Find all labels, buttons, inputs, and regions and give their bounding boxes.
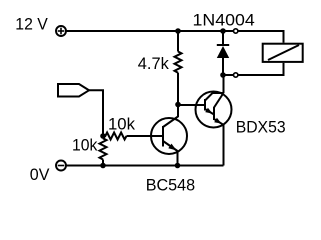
wire BDX53 collector stub — [223, 75, 225, 93]
label 10k lower — [72, 136, 98, 155]
node junction diode bottom — [220, 72, 226, 78]
node junction BC548 emitter — [175, 163, 181, 169]
label 10k upper — [108, 115, 135, 134]
resistor R1 4.7k — [175, 31, 182, 105]
wire BDX53 emitter — [223, 125, 225, 166]
svg-text:12 V: 12 V — [15, 15, 48, 34]
svg-text:BDX53: BDX53 — [236, 118, 286, 137]
svg-text:0V: 0V — [30, 165, 50, 184]
svg-text:4.7k: 4.7k — [138, 54, 169, 73]
input tag — [58, 84, 89, 97]
relay coil K1 — [263, 44, 303, 62]
wire 12V rail — [66, 30, 233, 32]
wire relay bottom — [238, 63, 283, 75]
transistor Q1 BC548 — [151, 105, 187, 166]
wire relay top — [238, 31, 283, 43]
svg-text:1N4004: 1N4004 — [193, 11, 255, 30]
label 12 V — [15, 15, 48, 34]
node junction input/divider — [100, 133, 106, 139]
wire diode bottom to node — [223, 74, 233, 76]
svg-text:10k: 10k — [72, 136, 98, 155]
terminal relay coil bottom (open circle) — [234, 73, 238, 77]
terminal +12V — [56, 26, 66, 36]
node junction diode top — [220, 28, 226, 34]
svg-text:10k: 10k — [108, 115, 135, 134]
label 4.7k — [138, 54, 169, 73]
node junction base/collector — [175, 102, 181, 108]
svg-text:BC548: BC548 — [146, 176, 195, 195]
node junction 0V divider — [100, 163, 106, 169]
transistor Q2 BDX53 (darlington) — [196, 92, 232, 128]
diode D1 1N4004 — [217, 31, 229, 75]
label BC548 — [146, 176, 195, 195]
wire 0V rail — [66, 165, 224, 167]
label BDX53 — [236, 118, 286, 137]
resistor R2 10k (series base) — [103, 133, 163, 140]
wire BDX53 base — [178, 104, 205, 106]
resistor R3 10k (pulldown) — [100, 136, 107, 166]
label 1N4004 — [193, 11, 255, 30]
terminal 0V — [56, 161, 66, 171]
terminal relay coil top (open circle) — [234, 29, 238, 33]
node junction 4.7k top — [175, 28, 181, 34]
label 0V — [30, 165, 50, 184]
wire input — [89, 90, 103, 136]
